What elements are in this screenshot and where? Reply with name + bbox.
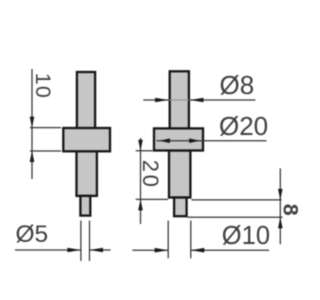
svg-text:Ø20: Ø20 (219, 111, 268, 141)
dimension 10: extension line at flange bottom (30, 150, 61, 152)
right part body (below flange, diameter 10) (169, 151, 190, 198)
dimension Ø8: left arrowhead pointing right (155, 98, 169, 103)
dimension Ø8: left dimension line (143, 99, 168, 101)
dimension Ø20: left arrowhead pointing left (159, 138, 170, 143)
dimension Ø10: right arrowhead pointing left (191, 248, 205, 253)
dimension 10: extension line at flange top (30, 127, 61, 129)
dimension 20: extension line at flange bottom left (136, 150, 153, 152)
pin length dimension 8: upper arrowhead pointing down (278, 189, 283, 200)
left part post (top cylinder) (77, 72, 95, 129)
dimension 20: extension line at body bottom left (136, 198, 168, 200)
dimension Ø5: right dimension line (90, 249, 111, 251)
dimension Ø10: right dimension line (191, 249, 269, 251)
dimension 20: vertical dimension line (140, 138, 142, 224)
dimension Ø5: left arrowhead pointing right (67, 248, 81, 253)
dimension Ø8: right arrowhead pointing left (190, 98, 204, 103)
svg-text:Ø8: Ø8 (220, 70, 255, 100)
dimension 20: lower arrowhead pointing up (138, 199, 143, 210)
svg-text:Ø10: Ø10 (222, 222, 270, 250)
right part post (top cylinder, diameter 8) (170, 71, 189, 129)
right part flange (diameter 20) (154, 128, 203, 150)
dimension Ø10: left arrowhead pointing right (155, 248, 169, 253)
dimension Ø5: right arrowhead pointing left (90, 248, 104, 253)
dimension Ø10: right extension line below body (190, 221, 192, 259)
left part body (below flange) (77, 151, 97, 196)
dimension Ø10: left extension line below body (167, 221, 169, 259)
svg-text:10: 10 (31, 73, 55, 99)
svg-text:Ø5: Ø5 (16, 221, 49, 248)
pin length dimension 8: extension line at pin bottom right (188, 216, 283, 218)
dimension Ø20: dimension line across flange with leader to label (157, 140, 267, 142)
svg-text:8: 8 (279, 204, 300, 216)
dimension Ø10: left dimension line (132, 249, 168, 251)
left part flange (diameter 20) (63, 128, 110, 151)
dimension 10: upper arrowhead pointing down (30, 117, 35, 128)
pin length dimension 8: lower arrowhead pointing up (278, 217, 283, 228)
dimension Ø5: right extension line below pin (89, 221, 91, 261)
dimension Ø5: left dimension line (15, 249, 81, 251)
svg-text:20: 20 (138, 160, 163, 190)
dimension Ø8: thin line crossing the post (169, 99, 190, 101)
dimension Ø8: right dimension line with leader to label (190, 99, 256, 101)
pin length dimension 8: extension line at body bottom right (192, 199, 282, 201)
dimension 20: upper arrowhead pointing down (138, 140, 143, 151)
dimension Ø20: right arrowhead pointing right (189, 138, 200, 143)
dimension Ø5: left extension line below pin (80, 221, 82, 261)
dimension 10: vertical dimension line (31, 69, 33, 179)
dimension 10: lower arrowhead pointing up (30, 151, 35, 162)
right part pin (bottom) (174, 198, 187, 217)
pin length dimension 8: vertical dimension line (279, 168, 281, 244)
left part pin (bottom, diameter 5) (80, 196, 90, 216)
